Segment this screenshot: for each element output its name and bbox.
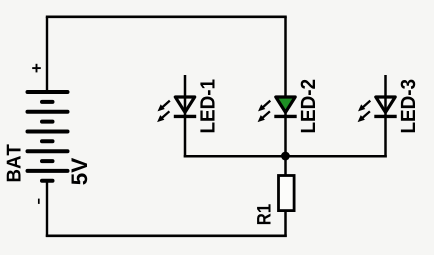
wire LED-2 anode vertical through symbol bbox=[284, 17, 287, 156]
LED LED-2 symbol (green) bbox=[258, 97, 297, 122]
junction node at LED cathode bus and R1 bbox=[281, 152, 290, 161]
LED LED-1 symbol bbox=[157, 97, 196, 122]
label LED-1 bbox=[200, 79, 214, 132]
resistor R1 body bbox=[279, 176, 295, 211]
battery plus sign bbox=[32, 64, 41, 73]
LED LED-3 symbol bbox=[358, 97, 397, 122]
label LED-2 bbox=[301, 80, 315, 133]
wire battery positive vertical bbox=[46, 17, 48, 92]
battery label BAT bbox=[7, 144, 21, 181]
wire node to R1 and R1 to bottom bbox=[284, 156, 287, 237]
wire LED-3 vertical through symbol bbox=[384, 75, 387, 157]
battery BAT plates bbox=[28, 92, 68, 181]
wire battery negative vertical bbox=[46, 181, 48, 237]
label R1 bbox=[257, 204, 270, 224]
wire cathode bus horizontal bbox=[184, 155, 387, 158]
wire LED-1 vertical through symbol bbox=[184, 75, 187, 157]
wire bottom horizontal bbox=[46, 235, 287, 238]
battery value 5V bbox=[72, 158, 88, 185]
wire top horizontal bbox=[46, 15, 287, 18]
label LED-3 bbox=[401, 80, 416, 133]
battery minus sign bbox=[38, 199, 40, 204]
